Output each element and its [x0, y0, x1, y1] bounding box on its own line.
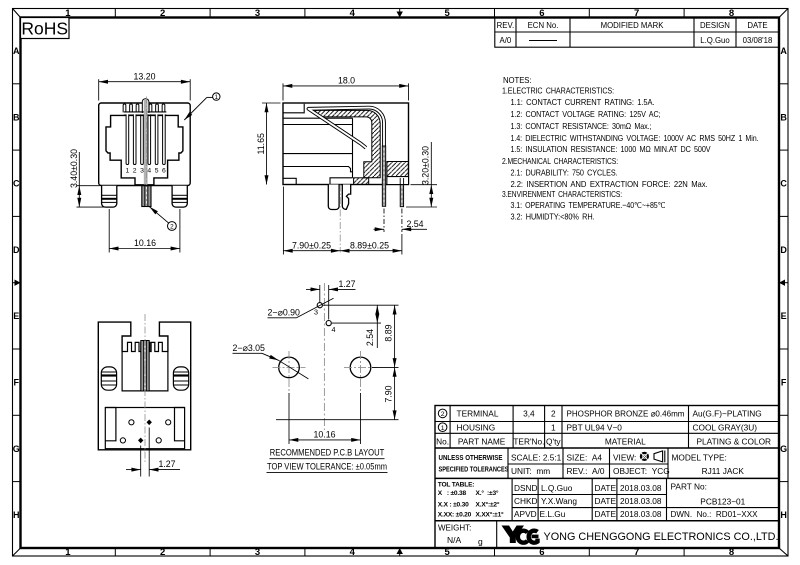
front view body outline	[99, 103, 191, 186]
svg-text:2018.03.08: 2018.03.08	[620, 483, 662, 493]
svg-text:B: B	[780, 112, 787, 122]
centering mark bottom	[397, 548, 403, 556]
view: cone symbol	[654, 451, 665, 463]
front view centerline	[145, 97, 147, 186]
centering mark top	[397, 9, 403, 18]
svg-text:WEIGHT:: WEIGHT:	[438, 524, 471, 533]
hatched block right	[387, 162, 409, 177]
svg-text:TER'No.: TER'No.	[513, 437, 544, 447]
svg-text:4: 4	[350, 547, 356, 558]
dimension 3.40±0.30	[77, 152, 105, 207]
svg-text:COOL GRAY(3U): COOL GRAY(3U)	[693, 422, 758, 432]
hole 3	[317, 303, 322, 308]
inner box	[122, 352, 168, 391]
svg-text:13.20: 13.20	[133, 71, 155, 81]
svg-text:10.16: 10.16	[134, 238, 156, 248]
svg-text:D: D	[13, 245, 20, 255]
svg-text:3: 3	[255, 8, 260, 19]
svg-text:PLATING & COLOR: PLATING & COLOR	[697, 437, 772, 447]
left latch oval	[101, 367, 116, 390]
svg-text:X.X°:±2°: X.X°:±2°	[476, 500, 500, 508]
RoHS box	[21, 18, 70, 39]
dimension 7.90 pcb	[276, 367, 399, 419]
svg-text:Au(G.F)−PLATING: Au(G.F)−PLATING	[693, 409, 762, 419]
right latch oval	[173, 367, 188, 390]
svg-text:1: 1	[126, 168, 130, 175]
balloon 2 in table	[438, 409, 447, 418]
svg-text:RJ11 JACK: RJ11 JACK	[702, 466, 745, 476]
svg-text:C: C	[780, 179, 787, 189]
dimension 11.65	[262, 103, 281, 185]
svg-text:1.27: 1.27	[338, 279, 355, 289]
svg-text:18.0: 18.0	[338, 75, 355, 85]
contact numbers 1-6	[126, 168, 166, 175]
side latch peg	[328, 185, 339, 210]
svg-text:11.65: 11.65	[256, 133, 266, 154]
svg-text:A: A	[780, 46, 787, 56]
top view outline	[98, 322, 190, 450]
svg-text:2: 2	[170, 223, 174, 230]
contact comb bar	[124, 111, 166, 113]
svg-text:B: B	[13, 112, 20, 122]
dimension 10.16 front	[109, 209, 180, 253]
svg-text:8.89±0.25: 8.89±0.25	[350, 240, 389, 250]
contact 5	[155, 114, 158, 164]
frame zone ticks bottom	[115, 548, 684, 556]
tolerance table text	[438, 482, 504, 519]
revision table	[495, 18, 779, 48]
right latch peg	[172, 186, 187, 207]
svg-text:2.2: INSERTION AND EXTRACTION: 2.2: INSERTION AND EXTRACTION FORCE: 22N…	[511, 179, 708, 189]
big hole left	[279, 357, 300, 378]
svg-text:ECN No.: ECN No.	[528, 21, 559, 30]
svg-text:Y.X.Wang: Y.X.Wang	[541, 496, 577, 506]
svg-text:PART No:: PART No:	[671, 482, 707, 492]
svg-text:Q'ty: Q'ty	[546, 437, 561, 447]
svg-text:DATE: DATE	[595, 496, 617, 506]
svg-text:3.2: HUMIDTY:<80% RH.: 3.2: HUMIDTY:<80% RH.	[511, 211, 595, 221]
svg-text:4: 4	[350, 8, 356, 19]
svg-text:E.L.Gu: E.L.Gu	[540, 509, 566, 519]
svg-text:3: 3	[255, 547, 260, 558]
center pcb pins bundle	[142, 186, 151, 207]
center pins gray strip	[144, 100, 148, 185]
svg-text:03/08'18: 03/08'18	[743, 36, 773, 45]
svg-text:MATERIAL: MATERIAL	[605, 437, 646, 447]
dimension 10.16 pcb	[289, 393, 361, 444]
svg-text:OBJECT: YCG: OBJECT: YCG	[613, 466, 670, 476]
dimension 1.27 pcb	[306, 285, 356, 320]
svg-text:E: E	[781, 311, 787, 321]
svg-text:3.ENVIRENMENT CHARACTERISTICS:: 3.ENVIRENMENT CHARACTERISTICS:	[502, 189, 622, 199]
svg-text:2: 2	[160, 8, 165, 19]
dimension 7.90±0.25	[283, 187, 340, 255]
svg-text:2: 2	[441, 411, 445, 418]
svg-text:NOTES:: NOTES:	[503, 75, 532, 85]
svg-text:CHKD: CHKD	[514, 496, 538, 506]
pcb layout caption	[267, 448, 388, 473]
svg-text:2018.03.08: 2018.03.08	[620, 509, 662, 519]
contact 4	[148, 114, 151, 164]
frame zone ticks left	[13, 84, 21, 482]
svg-text:G: G	[780, 444, 787, 454]
left latch peg	[102, 186, 117, 207]
svg-text:g: g	[478, 537, 483, 547]
contact comb	[122, 342, 168, 351]
svg-text:X.XX°:±1°: X.XX°:±1°	[476, 511, 505, 519]
svg-text:8.89: 8.89	[384, 324, 394, 341]
svg-text:TOL TABLE:: TOL TABLE:	[438, 482, 474, 489]
svg-text:1.3: CONTACT RESISTANCE: 30mΩ: 1.3: CONTACT RESISTANCE: 30mΩ Max.;	[511, 121, 652, 131]
svg-text:2−⌀0.90: 2−⌀0.90	[268, 308, 301, 318]
contact 6	[163, 114, 166, 164]
svg-text:N/A: N/A	[447, 535, 462, 545]
svg-text:1.2: CONTACT VOLTAGE RATING: 1: 1.2: CONTACT VOLTAGE RATING: 125V AC;	[511, 109, 661, 119]
pin 2	[399, 178, 401, 185]
svg-text:X.XX: ±0.20: X.XX: ±0.20	[438, 512, 472, 519]
dimension 3.20±0.30	[406, 142, 437, 207]
svg-text:D: D	[780, 245, 787, 255]
balloon 1 in table	[438, 423, 447, 432]
pin holes	[129, 420, 134, 425]
svg-text:DESIGN: DESIGN	[700, 21, 730, 30]
svg-text:UNIT: mm: UNIT: mm	[511, 466, 550, 476]
svg-text:A/0: A/0	[500, 36, 512, 45]
view: third angle symbol circle	[640, 452, 649, 461]
svg-text:G: G	[13, 444, 20, 454]
svg-text:2018.03.08: 2018.03.08	[620, 496, 662, 506]
svg-text:5: 5	[155, 168, 159, 175]
hatched foot strip	[354, 178, 369, 185]
svg-text:6: 6	[162, 168, 166, 175]
svg-text:DATE: DATE	[595, 483, 617, 493]
svg-text:No.: No.	[436, 437, 449, 447]
svg-text:MODEL TYPE:: MODEL TYPE:	[672, 453, 727, 463]
svg-text:H: H	[13, 510, 20, 520]
title block parts rows text	[436, 409, 771, 447]
svg-text:1.ELECTRIC CHARACTERISTICS:: 1.ELECTRIC CHARACTERISTICS:	[502, 85, 614, 95]
svg-text:1: 1	[551, 422, 556, 432]
svg-text:7.90: 7.90	[384, 385, 394, 402]
svg-text:RoHS: RoHS	[21, 18, 68, 38]
svg-text:H: H	[780, 510, 787, 520]
svg-text:4: 4	[147, 168, 151, 175]
frame zone letters right	[780, 46, 787, 520]
side latch centerline	[339, 185, 341, 253]
svg-text:DATE: DATE	[595, 509, 617, 519]
big hole right	[350, 357, 371, 378]
centering mark right	[779, 280, 788, 286]
title block grid	[435, 406, 779, 549]
svg-text:REV.: REV.	[497, 21, 514, 30]
svg-text:X.X : ±0.30: X.X : ±0.30	[438, 501, 469, 508]
contact spring wire	[309, 108, 385, 206]
svg-text:L.Q.Guo: L.Q.Guo	[700, 36, 730, 45]
svg-text:F: F	[14, 378, 20, 388]
svg-text:1: 1	[65, 547, 71, 558]
centering mark left	[13, 280, 21, 286]
svg-text:DSND: DSND	[514, 483, 538, 493]
svg-text:PCB123−01: PCB123−01	[700, 497, 745, 507]
pin pads filled	[147, 420, 152, 426]
svg-text:5: 5	[444, 8, 450, 19]
svg-text:X.° :±3°: X.° :±3°	[476, 489, 499, 497]
title block middle text	[511, 453, 744, 476]
center contact tall guide	[142, 99, 149, 113]
pcb centerline	[323, 283, 325, 430]
interior step lines	[283, 104, 353, 185]
svg-text:REV.: A/0: REV.: A/0	[567, 466, 605, 476]
frame zone ticks right	[779, 84, 788, 482]
svg-text:1: 1	[441, 425, 445, 432]
frame zone numbers top	[65, 8, 734, 19]
dimension 1.27 top view	[126, 428, 180, 477]
svg-text:3: 3	[314, 308, 318, 317]
svg-text:3.40±0.30: 3.40±0.30	[69, 149, 79, 188]
svg-text:DWN. No.: RD01−XXX: DWN. No.: RD01−XXX	[671, 509, 758, 519]
svg-text:10.16: 10.16	[313, 429, 335, 439]
dimension 8.89±0.25	[340, 234, 402, 255]
balloon 1 leader	[184, 93, 220, 120]
svg-text:SIZE: A4: SIZE: A4	[567, 453, 603, 463]
contact 3	[141, 114, 144, 164]
svg-text:SCALE: 2.5:1: SCALE: 2.5:1	[511, 453, 562, 463]
svg-text:F: F	[781, 378, 787, 388]
dimension 18.0	[283, 83, 409, 100]
svg-text:3,4: 3,4	[523, 409, 535, 419]
svg-text:L.Q.Guo: L.Q.Guo	[541, 483, 573, 493]
svg-text:1: 1	[215, 94, 219, 101]
dimension 2.54 side	[374, 209, 428, 233]
svg-text:PART NAME: PART NAME	[458, 437, 506, 447]
side view body outline	[283, 103, 409, 185]
dimension 2.54 pcb	[323, 305, 381, 348]
svg-text:2: 2	[133, 168, 137, 175]
svg-text:4: 4	[332, 325, 336, 334]
svg-text:A: A	[13, 46, 20, 56]
hole 4	[326, 321, 331, 326]
notes text block	[502, 75, 759, 221]
dimension 8.89 pcb	[381, 305, 399, 367]
front view socket opening	[106, 115, 183, 184]
svg-text:DATE: DATE	[747, 21, 767, 30]
svg-text:2−⌀3.05: 2−⌀3.05	[233, 343, 266, 353]
svg-text:TOP VIEW TOLERANCE: ±0.05mm: TOP VIEW TOLERANCE: ±0.05mm	[267, 461, 387, 471]
balloon 2 leader	[150, 207, 177, 231]
svg-text:7.90±0.25: 7.90±0.25	[292, 240, 331, 250]
base inner rect	[105, 408, 184, 449]
svg-text:3.20±0.30: 3.20±0.30	[420, 146, 430, 185]
YCG logo	[502, 526, 539, 544]
contact 1	[126, 114, 129, 164]
contact alignment teeth row	[123, 104, 126, 112]
svg-text:SPECIFIED TOLERANCES: SPECIFIED TOLERANCES	[439, 467, 509, 474]
svg-text:X : ±0.38: X : ±0.38	[438, 490, 467, 497]
signature rows	[514, 482, 758, 519]
top view centerline	[144, 314, 146, 462]
svg-text:RECOMMENDED P.C.B LAYOUT: RECOMMENDED P.C.B LAYOUT	[270, 448, 385, 458]
svg-text:2.MECHANICAL CHARACTERISTICS:: 2.MECHANICAL CHARACTERISTICS:	[502, 156, 618, 166]
hatched wall channel	[311, 110, 380, 177]
svg-text:1.5: INSULATION RESISTANCE: 10: 1.5: INSULATION RESISTANCE: 1000 MΩ MIN.…	[511, 144, 711, 154]
svg-text:UNLESS OTHERWISE: UNLESS OTHERWISE	[439, 455, 503, 462]
svg-text:VIEW:: VIEW:	[613, 453, 636, 463]
svg-text:1.4: DIELECTRIC WITHSTANDING V: 1.4: DIELECTRIC WITHSTANDING VOLTAGE: 10…	[511, 133, 759, 143]
svg-text:2: 2	[551, 409, 556, 419]
dimension 13.20	[99, 79, 191, 100]
center contacts strip	[141, 341, 149, 391]
svg-text:3.1: OPERATING TEMPERATURE.−40: 3.1: OPERATING TEMPERATURE.−40℃~+85℃	[511, 200, 666, 210]
svg-text:C: C	[13, 179, 20, 189]
contact 2	[133, 114, 136, 164]
bottom right wall strip	[387, 177, 409, 185]
frame zone letters left	[13, 46, 20, 520]
svg-text:2.54: 2.54	[365, 329, 375, 346]
frame zone numbers bottom	[65, 547, 734, 558]
svg-text:2: 2	[160, 547, 165, 558]
svg-text:APVD: APVD	[514, 509, 537, 519]
svg-text:1.1: CONTACT CURRENT RATING: 1: 1.1: CONTACT CURRENT RATING: 1.5A.	[511, 97, 655, 107]
svg-text:TERMINAL: TERMINAL	[457, 409, 499, 419]
pin 1 (wire end)	[382, 146, 385, 206]
svg-text:HOUSING: HOUSING	[457, 422, 496, 432]
svg-text:YONG CHENGGONG ELECTRONICS CO.: YONG CHENGGONG ELECTRONICS CO.,LTD.	[544, 531, 779, 543]
frame zone ticks top	[115, 9, 684, 18]
svg-text:1.27: 1.27	[158, 459, 175, 469]
svg-text:3: 3	[140, 168, 144, 175]
svg-text:PBT UL94 V−0: PBT UL94 V−0	[567, 422, 623, 432]
svg-text:PHOSPHOR BRONZE ⌀0.46mm: PHOSPHOR BRONZE ⌀0.46mm	[567, 409, 685, 419]
svg-text:2.54: 2.54	[406, 219, 423, 229]
weight cell	[438, 524, 483, 547]
svg-text:E: E	[13, 311, 19, 321]
svg-text:MODIFIED MARK: MODIFIED MARK	[601, 21, 665, 30]
svg-text:2.1: DURABILITY: 750 CYCLES.: 2.1: DURABILITY: 750 CYCLES.	[511, 167, 618, 177]
